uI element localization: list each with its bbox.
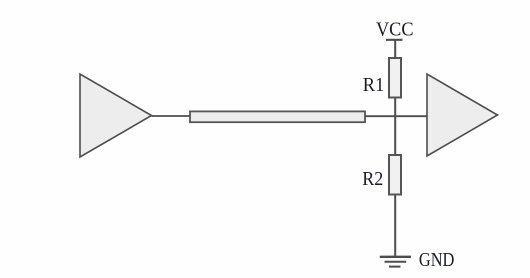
wire from transmission line to receiver [365,115,427,117]
wire VCC to R1 [394,40,396,58]
resistor R2 [389,155,401,195]
svg-text:VCC: VCC [376,19,414,41]
wire R1 to node and node to R2 [394,98,396,156]
svg-text:R1: R1 [363,74,385,96]
svg-text:R2: R2 [362,168,383,190]
ground symbol [380,257,411,267]
transmission line [190,111,365,122]
wire R2 to ground [394,195,396,257]
resistor R1 [389,58,401,98]
svg-text:GND: GND [419,249,455,271]
driver buffer (left triangle) [80,74,152,157]
receiver buffer (right triangle) [427,74,498,156]
wire from driver to transmission line [152,115,191,117]
VCC rail crossbar [386,39,403,41]
